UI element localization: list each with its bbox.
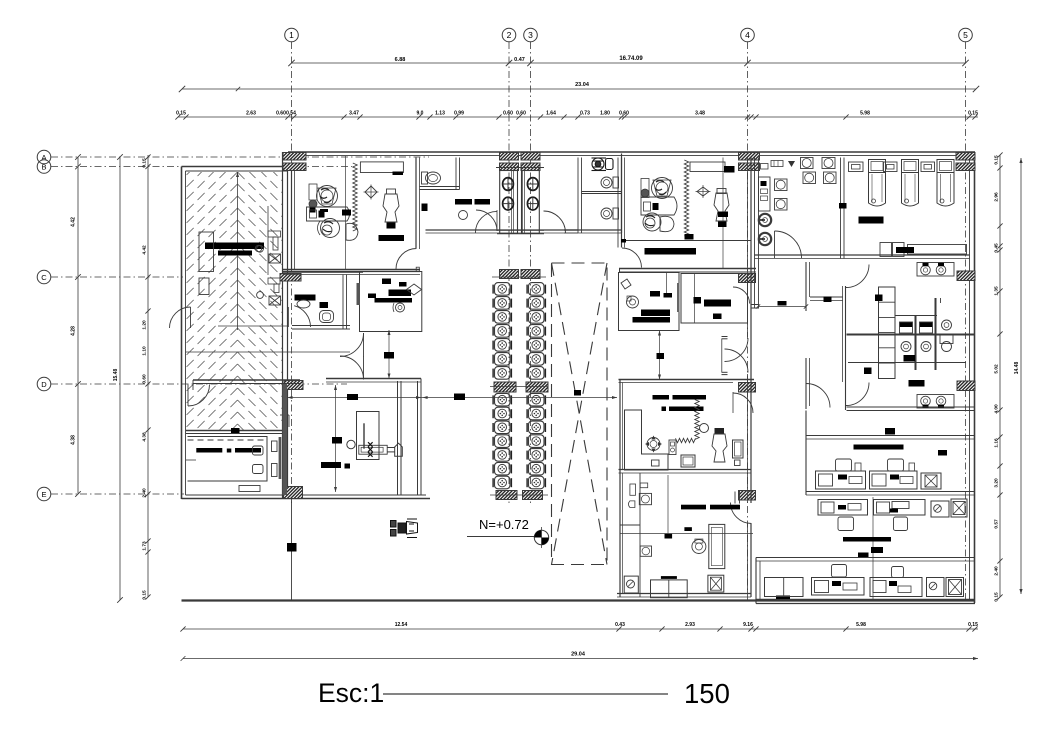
- xray diamond: [407, 284, 422, 295]
- wall below ramp: [193, 379, 300, 381]
- bath stall divider 1: [915, 316, 917, 371]
- waiting chair: [495, 339, 511, 352]
- wall column block: [957, 271, 975, 281]
- outer wall bottom-left: [182, 498, 431, 500]
- lab sink 1: [759, 214, 771, 226]
- bath blobs: [904, 355, 916, 362]
- fixture bar B: [274, 284, 279, 293]
- office4 bottom circbox: [624, 576, 638, 593]
- corridor blob: [885, 428, 895, 435]
- level mark symbol: [534, 530, 548, 544]
- hall wall vertical lower: [805, 358, 807, 409]
- bath stall divider 3: [940, 298, 942, 303]
- svg-text:1: 1: [289, 30, 294, 40]
- svg-text:0.15: 0.15: [968, 622, 978, 628]
- svg-text:0.73: 0.73: [580, 111, 590, 117]
- office4 left wall: [619, 473, 621, 597]
- waiting chair: [529, 311, 545, 324]
- svg-text:0.60: 0.60: [276, 111, 286, 117]
- bigroom left wall dark: [283, 384, 288, 495]
- office row1 blob right: [938, 450, 947, 456]
- office4 chair3: [692, 540, 706, 554]
- roomB bottom wall: [426, 229, 579, 231]
- offices wall row1/row2: [806, 491, 975, 493]
- toiletA wc: [422, 172, 428, 184]
- fixture box X A: [269, 254, 281, 263]
- office1 interior vline: [345, 156, 347, 270]
- svg-text:150: 150: [684, 678, 730, 709]
- grid bubble E: [37, 487, 51, 501]
- wall stub y306: [751, 304, 759, 306]
- bath door arc bottom: [846, 383, 869, 406]
- waiting chair: [495, 325, 511, 338]
- lab right wall: [840, 158, 842, 259]
- office row2 circbox: [931, 501, 949, 517]
- outer wall top main: [288, 151, 975, 153]
- waiting chair: [529, 367, 545, 380]
- toiletA wall figure: [422, 204, 428, 212]
- svg-text:0.15: 0.15: [142, 590, 148, 600]
- wall column block: [523, 491, 543, 500]
- office1 door arc: [396, 249, 417, 270]
- svg-text:4.28: 4.28: [71, 326, 77, 336]
- desk room dashed shelf: [188, 439, 268, 441]
- office4 door stub: [734, 492, 736, 504]
- svg-text:0.60: 0.60: [142, 374, 148, 384]
- fixture box X B: [269, 296, 281, 305]
- svg-text:0.15: 0.15: [142, 158, 148, 168]
- grid bubble B: [37, 160, 51, 174]
- door arc left of stalls: [475, 211, 497, 233]
- office3 corner desk: [625, 410, 669, 470]
- office3 side table: [733, 440, 744, 458]
- niche rect 1: [199, 232, 214, 272]
- svg-text:4.38: 4.38: [71, 435, 77, 445]
- wall column block: [496, 491, 517, 500]
- office3 cabinet: [669, 440, 676, 455]
- svg-text:9.0: 9.0: [417, 111, 424, 117]
- toiletsC divider: [582, 191, 622, 193]
- wall x756 lower: [755, 558, 757, 604]
- svg-text:0.15: 0.15: [994, 155, 1000, 165]
- hall wall blob: [824, 297, 832, 303]
- office2 desk items: [644, 202, 651, 211]
- waiting chair: [529, 462, 545, 475]
- office4 inner vline: [667, 475, 669, 534]
- midroomA diamond chair: [621, 279, 631, 289]
- grid line 2: [508, 42, 510, 505]
- svg-text:1.80: 1.80: [600, 111, 610, 117]
- svg-text:2.40: 2.40: [142, 488, 148, 498]
- corridor vert dim: [388, 330, 390, 379]
- svg-text:5.98: 5.98: [860, 111, 870, 117]
- office2 desk rect: [641, 179, 649, 198]
- lab top items: [761, 164, 769, 170]
- corridor dim line: [288, 397, 618, 399]
- svg-text:0.60: 0.60: [619, 111, 629, 117]
- toiletM counter blobs: [295, 295, 316, 301]
- corridor dim blobs: [347, 394, 358, 400]
- svg-text:29.04: 29.04: [571, 652, 586, 658]
- office row2 blobs: [843, 537, 891, 542]
- office3 top wall: [619, 379, 755, 381]
- grid line through C blocks: [492, 276, 546, 278]
- svg-text:15.48: 15.48: [113, 369, 119, 382]
- toiletsC wc1: [613, 177, 619, 188]
- bigroom right wall 1: [397, 381, 399, 495]
- waiting chair: [529, 325, 545, 338]
- midroomA divider bar: [677, 283, 680, 312]
- toiletM blob2: [320, 302, 329, 308]
- office1 label blob: [342, 210, 351, 216]
- fixture rect B: [268, 278, 280, 284]
- zigzag divider: [695, 400, 699, 440]
- waiting chair: [529, 476, 545, 489]
- svg-text:5.02: 5.02: [994, 364, 1000, 374]
- grid bubble 3: [524, 28, 538, 42]
- wall column block: [739, 383, 756, 393]
- offices corridor wall: [806, 435, 975, 437]
- svg-text:D: D: [41, 380, 47, 389]
- wall column block: [739, 163, 760, 171]
- grid line E: [51, 493, 184, 495]
- roomB label blobs: [455, 199, 472, 205]
- bath wc1: [900, 322, 913, 327]
- ramp blob: [574, 390, 581, 396]
- bath wc3: [942, 320, 952, 330]
- midroomB box: [681, 274, 748, 324]
- office row2 desk2: [874, 500, 926, 516]
- svg-text:E: E: [41, 490, 46, 499]
- bath blob: [875, 295, 883, 302]
- toiletM right wall: [342, 275, 344, 330]
- toiletA bottom wall: [420, 186, 460, 188]
- svg-text:3: 3: [528, 30, 533, 40]
- hall dim blob: [778, 301, 787, 306]
- svg-text:6.88: 6.88: [395, 57, 406, 63]
- offices left wall upper: [805, 411, 807, 496]
- desk room inner line: [186, 459, 196, 461]
- svg-text:1.64: 1.64: [546, 111, 556, 117]
- office3 circle: [700, 424, 709, 433]
- toiletM bottom wall: [292, 325, 350, 327]
- desk room chair 2: [253, 465, 264, 474]
- office1 dentist chair figure: [317, 186, 338, 207]
- svg-text:5: 5: [963, 30, 968, 40]
- office4 right wall: [747, 473, 749, 503]
- svg-text:14.48: 14.48: [1014, 362, 1020, 375]
- door exterior left lower: [188, 385, 210, 407]
- office row2 chairs: [838, 517, 854, 531]
- bed at 937: [937, 160, 954, 173]
- waiting chair: [495, 462, 511, 475]
- office3 dental chair: [712, 434, 727, 462]
- fixture rect A: [268, 231, 281, 237]
- row3 chairs: [832, 565, 847, 578]
- office4 full line: [620, 533, 753, 535]
- zigzag divider: [684, 160, 688, 236]
- outer wall right: [974, 154, 976, 604]
- scale line: [383, 693, 668, 695]
- svg-text:0.15: 0.15: [176, 111, 186, 117]
- bigroom handle: [395, 443, 403, 456]
- row3 circbox: [927, 578, 945, 597]
- svg-text:2.96: 2.96: [994, 192, 1000, 202]
- xray door bar: [357, 283, 361, 305]
- svg-text:1.35: 1.35: [994, 286, 1000, 296]
- ground line: [182, 599, 976, 601]
- office4 tall desk: [709, 524, 725, 568]
- wall spine x283: [282, 152, 284, 499]
- office1 label: [379, 235, 405, 241]
- hall dim line: [758, 306, 806, 308]
- office4 bottom wall: [617, 593, 751, 595]
- grid bubble 2: [502, 28, 516, 42]
- wall column block: [284, 381, 303, 390]
- svg-text:2: 2: [507, 30, 512, 40]
- dimension line top 2: [182, 88, 976, 90]
- office2 desk round: [641, 197, 677, 215]
- toilets right wall stub: [619, 269, 621, 273]
- svg-text:3.48: 3.48: [695, 111, 705, 117]
- wall column block: [521, 163, 540, 171]
- bath stall divider 2: [935, 298, 937, 370]
- office row1 boxX: [921, 473, 941, 489]
- office row2 desk1: [818, 500, 868, 516]
- toiletA right wall: [455, 158, 457, 190]
- dashed ramp X: [552, 263, 608, 565]
- wall bottom of ramp area: [186, 430, 282, 432]
- bath wc2: [920, 322, 933, 327]
- waiting chair: [495, 435, 511, 448]
- waiting chair: [495, 421, 511, 434]
- office1 side chair: [346, 223, 358, 240]
- office2 patient chair 1: [643, 213, 661, 231]
- svg-text:0.99: 0.99: [454, 111, 464, 117]
- midroomB blobs: [694, 297, 702, 304]
- office3 labels: [653, 395, 670, 400]
- dimension line left A-E: [77, 157, 79, 494]
- dimension line bottom 1: [183, 628, 978, 630]
- office4 chair2: [640, 546, 651, 556]
- svg-text:9.16: 9.16: [743, 622, 753, 628]
- desk room plaque: [239, 486, 260, 492]
- wall column block: [280, 274, 301, 282]
- grid4 door arc upper: [733, 287, 750, 304]
- bath bottom wall: [847, 406, 976, 408]
- office4 strip divider: [620, 524, 640, 526]
- wheelchair icon: [391, 519, 418, 538]
- bigroom arm: [387, 447, 395, 449]
- bath sinks box bottom: [917, 395, 954, 409]
- office4 chair1: [639, 493, 651, 504]
- office divider line x873: [872, 497, 874, 599]
- waiting chair: [529, 297, 545, 310]
- ramp label text: [205, 243, 264, 250]
- grid bubble D: [37, 377, 51, 391]
- wall column block: [956, 163, 975, 171]
- bed at 868.5: [869, 160, 886, 173]
- wall column block: [526, 382, 548, 392]
- waiting chair: [529, 421, 545, 434]
- svg-text:0.15: 0.15: [968, 111, 978, 117]
- bed room counter: [908, 245, 967, 255]
- wall step right of ramp: [280, 414, 289, 416]
- row3 cabinet pair: [765, 578, 804, 597]
- svg-text:3.47: 3.47: [349, 111, 359, 117]
- svg-text:0.60: 0.60: [516, 111, 526, 117]
- zigzag divider: [676, 438, 696, 442]
- dashed ramp outline: [552, 263, 608, 565]
- wall column block: [500, 270, 519, 279]
- double door upper: [340, 333, 364, 357]
- stall column 1: [500, 171, 518, 234]
- office2 entry door arc: [622, 248, 642, 268]
- office3 small sq: [735, 460, 741, 466]
- svg-text:5.98: 5.98: [856, 622, 866, 628]
- corridor door arc upper: [725, 338, 749, 362]
- wall column block: [500, 163, 519, 171]
- wall column block: [739, 274, 756, 283]
- svg-text:A: A: [41, 153, 46, 162]
- ramp ridge line: [237, 172, 239, 330]
- waiting chair: [529, 393, 545, 406]
- office1 patient chair: [321, 219, 340, 238]
- offices wall row2/row3: [756, 557, 975, 559]
- waiting chair: [529, 353, 545, 366]
- lab cabinet: [759, 177, 771, 211]
- bed at 901.5: [902, 160, 919, 173]
- zigzag divider: [353, 163, 357, 231]
- grid line 3: [530, 42, 532, 505]
- lab left wall: [754, 158, 756, 309]
- stall block line across: [496, 167, 544, 169]
- lab stool 5: [803, 172, 816, 184]
- office1 bottom wall: [283, 269, 421, 271]
- desk room wall blob: [231, 428, 240, 433]
- xray circle symbol: [396, 303, 405, 312]
- grid line through E blocks: [490, 494, 548, 496]
- svg-text:4.00: 4.00: [994, 404, 1000, 414]
- svg-text:1.73: 1.73: [142, 541, 148, 551]
- grid line 1: [291, 42, 293, 505]
- toiletM top wall: [283, 271, 421, 273]
- office row1 desk2: [870, 471, 918, 489]
- office row1 chairs: [836, 459, 852, 471]
- bed room boxes: [880, 243, 892, 257]
- grid bubble C: [37, 270, 51, 284]
- svg-text:4.38: 4.38: [142, 432, 148, 442]
- office2 dental chair: [714, 193, 729, 221]
- dimension line bottom 2: [183, 658, 978, 660]
- desk room dark strip: [279, 437, 282, 479]
- bath stall line top: [895, 315, 937, 317]
- office3 door arc: [733, 393, 753, 413]
- office2 bottom wall: [619, 268, 756, 270]
- office row1 desk1: [816, 471, 866, 489]
- midroom dim blob: [657, 353, 665, 359]
- svg-text:B: B: [41, 163, 46, 172]
- wall column block: [283, 153, 306, 161]
- dimension line left overall: [119, 157, 121, 600]
- svg-text:0.47: 0.47: [514, 57, 525, 63]
- svg-text:1.13: 1.13: [435, 111, 445, 117]
- desk room chair 1: [253, 446, 264, 455]
- toiletM sink: [297, 300, 310, 308]
- svg-text:23.04: 23.04: [575, 82, 590, 88]
- bed room bottom wall: [846, 254, 970, 256]
- toiletsC left wall: [577, 158, 579, 234]
- office4 bottom boxes: [651, 580, 688, 598]
- office2 counter: [690, 162, 725, 172]
- office1 counter: [360, 162, 403, 173]
- row3 desk1: [812, 578, 865, 596]
- waiting chair: [495, 283, 511, 296]
- wall column block: [957, 381, 975, 391]
- office1 diamond: [365, 186, 377, 198]
- fixture circle B: [257, 292, 264, 299]
- wheelchair symbol: [592, 158, 614, 171]
- office2 zz blob: [685, 234, 694, 240]
- bed table 1: [849, 162, 864, 172]
- office1 desk items: [310, 210, 317, 218]
- desk room label text: [196, 448, 222, 453]
- grid line 5: [965, 42, 967, 600]
- grid bubble 4: [741, 28, 755, 42]
- midroomA chair: [627, 296, 639, 308]
- exterior path line: [291, 499, 293, 600]
- office row1 label: [854, 445, 904, 450]
- grid line through D blocks: [490, 386, 548, 388]
- svg-text:2.40: 2.40: [994, 566, 1000, 576]
- bath lower line: [848, 362, 966, 364]
- svg-text:Esc:1: Esc:1: [318, 678, 384, 708]
- double door lower: [340, 356, 364, 380]
- waiting chair: [495, 367, 511, 380]
- waiting chair: [529, 435, 545, 448]
- office3 monitor: [681, 455, 695, 467]
- hall wall vertical upper: [805, 262, 807, 311]
- lab stool 6: [824, 172, 837, 184]
- svg-text:C: C: [41, 273, 47, 282]
- bath sinks box top: [917, 263, 954, 277]
- waiting chair: [529, 449, 545, 462]
- office1 desk group: [309, 184, 317, 200]
- waiting chair: [495, 449, 511, 462]
- office4 blob: [665, 534, 673, 539]
- grid line 4: [747, 42, 749, 600]
- office2 patient chair 2: [660, 216, 674, 231]
- bath door arc top: [846, 265, 869, 288]
- waiting chair: [495, 353, 511, 366]
- office2 interior vline: [722, 158, 724, 269]
- office1 desk round: [307, 207, 350, 221]
- dimension line top 1: [292, 62, 966, 64]
- grid line A: [51, 156, 429, 158]
- toiletM wc: [320, 311, 334, 323]
- waiting chair: [495, 407, 511, 420]
- lab bottom wall: [755, 254, 847, 256]
- dimension line right overall: [1020, 158, 1022, 594]
- midroom dim vline: [659, 331, 661, 380]
- row3 label: [858, 553, 869, 558]
- wall column block: [284, 487, 303, 499]
- office4 left strip wall: [639, 473, 641, 597]
- toilets bottom wall: [564, 229, 622, 231]
- office2 label blob: [645, 248, 697, 255]
- bath shelf ladder: [879, 287, 896, 379]
- outer wall left: [181, 167, 183, 500]
